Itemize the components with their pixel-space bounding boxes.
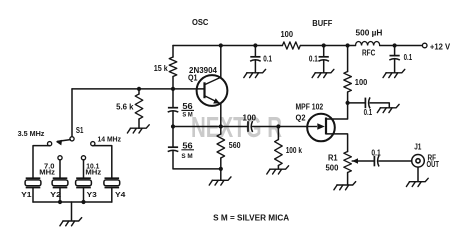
svg-text:5.6 k: 5.6 k [116,103,134,112]
contact 14 MHz [91,142,95,146]
wire 560 top lead [220,127,222,135]
label 0.1 [371,149,381,158]
contact 7.0 MHz [58,156,62,160]
svg-text:MPF 102: MPF 102 [296,103,324,112]
wire gnd stub [220,169,222,180]
wire 560 bottom lead [220,158,222,169]
svg-text:500: 500 [326,164,339,173]
resistor 5.6k [135,94,143,119]
wire Q2 source [326,134,348,152]
svg-text:100 k: 100 k [286,146,303,155]
ground bypass3 [383,69,405,77]
contact 3.5 MHz [48,142,52,146]
svg-text:0.1: 0.1 [364,108,373,117]
svg-text:MHz: MHz [39,168,55,177]
label 100 [355,78,368,87]
label RF [428,154,437,163]
wire bypass cap3 bottom lead [394,60,396,73]
svg-text:100: 100 [355,78,368,87]
ground R1 [334,182,356,190]
contact 10.1 MHz [81,156,85,160]
wiper arrow R1 [352,158,358,164]
svg-text:BUFF: BUFF [312,19,332,28]
label 500 [326,164,339,173]
label Q1 [188,73,198,82]
node drain junction [346,101,350,105]
label 0.1 [364,108,373,117]
svg-text:RFC: RFC [362,48,375,57]
resistor 15k [169,57,177,77]
wire bypass cap1 bottom lead [254,61,256,73]
node drain feed at rail [346,43,350,47]
svg-text:500 µH: 500 µH [356,29,383,38]
wire Y2 bottom lead [59,188,61,202]
label OUT [427,160,440,169]
resistor 100 buffer feed [282,42,300,49]
terminal +12V [422,43,427,48]
capacitor 100pF coupling [248,121,253,132]
svg-text:Y3: Y3 [87,190,97,199]
capacitor C 56pF silver mica #2 [168,147,179,151]
svg-text:OUT: OUT [427,160,440,169]
svg-text:Y1: Y1 [21,190,31,199]
label 5.6 k [116,103,134,112]
wire 7.0 contact to Y2 [59,160,61,179]
label 3.5 MHz [18,129,45,138]
crystal Y1 [21,178,41,199]
label 15 k [154,64,168,73]
label 0.1 [263,55,272,64]
ground crystal bus [60,218,82,226]
wire bypass cap2 bottom lead [323,61,325,73]
wire +12V rail right segment [380,45,423,47]
node emitter feedback junction [171,124,175,128]
wire base line from S1 [72,88,204,90]
wire bypass cap1 top lead [254,46,256,57]
node Q1 collector at rail [219,43,223,47]
wire coupling cap to gate [253,126,308,128]
node Y2 bus junction [58,200,62,204]
wire S1 wiper arm [58,140,71,142]
node BUFF section label [312,19,332,28]
label 560 [229,141,241,150]
label 500 uH [356,29,383,38]
ground 100k [267,166,289,174]
wire bypass cap2 top lead [323,46,325,57]
svg-text:0.1: 0.1 [371,149,381,158]
label 100 [281,30,294,39]
svg-text:56: 56 [182,102,193,111]
node emitter/coupling junction [219,124,223,128]
svg-text:Q1: Q1 [188,73,198,82]
node bypass C3 at rail [393,43,397,47]
svg-text:S M: S M [181,153,193,160]
wire 56 cap2 bottom lead [173,151,221,169]
svg-text:100: 100 [243,114,257,123]
wire 15k to base node [172,77,174,108]
wire 5.6k top lead [138,89,140,94]
wire wiper to cap [352,160,374,162]
wire Y3 bottom lead [83,188,85,202]
crystal Y3 [76,178,97,199]
ground oscillator emitter network [209,177,231,185]
wire between 56 caps upper [172,111,174,126]
svg-text:15 k: 15 k [154,64,168,73]
node bypass C2 at rail [322,43,326,47]
svg-text:0.1: 0.1 [404,53,413,62]
capacitor 0.1 drain bypass [365,97,370,108]
label RFC [362,48,375,57]
wire drain R top lead [347,46,349,72]
wire crystal ground bus [33,201,112,203]
svg-text:S M: S M [182,112,193,119]
label R1 [328,154,338,163]
wire J1 gnd stub [417,167,419,181]
svg-text:J1: J1 [414,143,422,152]
svg-text:OSC: OSC [192,18,209,27]
svg-text:0.1: 0.1 [263,55,272,64]
ground drain bypass [377,104,399,112]
ground 5.6k [127,125,149,133]
watermark [191,112,282,144]
wire S1 pole to base line [71,89,73,137]
resistor 100 drain [344,72,352,93]
ground bypass2 [312,69,334,77]
label 2N3904 [189,66,218,75]
svg-text:100: 100 [281,30,294,39]
wire 3.5 contact to Y1 [33,146,50,179]
wire bus gnd stub [71,202,73,221]
label 14 MHz [98,135,122,144]
svg-text:S1: S1 [76,126,84,135]
connector J1 [412,155,425,168]
label 100 [243,114,257,123]
wire to 56 cap2 [172,127,174,148]
transistor Q2 MPF102 JFET [307,114,335,142]
svg-text:MHz: MHz [85,168,101,177]
arrow S1 wiper [56,140,62,146]
wire 100k top lead [277,127,279,140]
wire 10.1 contact to Y3 [83,160,85,179]
crystal Y2 [50,178,68,199]
svg-text:Q2: Q2 [296,113,307,122]
capacitor 0.1 bypass #1 [250,57,261,61]
gate arrow Q2 [317,123,325,129]
wire Q2 drain [326,103,348,119]
svg-text:3.5 MHz: 3.5 MHz [18,129,45,138]
label 56 SM [181,141,194,159]
svg-text:R1: R1 [328,154,338,163]
node Y3 bus junction [81,200,85,204]
note silver mica [213,213,289,222]
wire 5.6k bottom lead [138,119,140,128]
node OSC section label [192,18,209,27]
svg-text:0.1: 0.1 [309,55,318,64]
wire drain bypass lead [348,102,366,104]
wire 100k bottom lead [277,166,279,169]
potentiometer R1 500 body [344,152,352,173]
svg-text:+12 V: +12 V [430,41,451,51]
wire Q1 emitter [220,104,222,127]
wire pot bottom lead [347,173,349,185]
svg-text:S M = SILVER MICA: S M = SILVER MICA [213,213,289,222]
wire cap to J1 [379,160,412,162]
resistor 100k [275,140,283,166]
capacitor 0.1 bypass #2 [318,57,329,61]
label 0.1 [404,53,413,62]
label MPF 102 [296,103,324,112]
wire +12V rail middle segment [300,45,355,47]
transistor Q1 2N3904 [197,75,228,106]
resistor 560 [217,134,225,158]
node 560 ground junction [219,167,223,171]
wire feedback/coupling line [173,126,248,128]
wire bypass cap3 top lead [394,46,396,56]
label J1 [414,143,422,152]
ground J1 [406,178,428,186]
label S1 [76,126,84,135]
label +12 V [430,41,451,51]
emitter arrow Q1 [213,98,220,103]
svg-text:NEXTG R: NEXTG R [191,112,282,144]
node 5.6k tap [137,87,141,91]
svg-text:14 MHz: 14 MHz [98,135,122,144]
node base junction [171,87,175,91]
label 7.0 MHz [39,162,55,177]
label 10.1 MHz [85,162,101,177]
crystal Y4 [104,178,127,199]
wire rail corner to 15k [172,46,174,58]
label 100 k [286,146,303,155]
label 56 SM [181,102,194,119]
wire 14 contact to Y4 [93,146,112,179]
inductor RFC 500uH [356,41,380,45]
node bypass C at rail [253,43,257,47]
ground bypass1 [244,69,266,77]
svg-text:Y4: Y4 [115,190,126,199]
wire +12V rail left segment [173,45,282,47]
label Q2 [296,113,307,122]
node gate junction [276,124,280,128]
capacitor 0.1 bypass #3 [389,56,400,60]
capacitor 0.1 output [374,156,379,167]
svg-text:560: 560 [229,141,241,150]
switch S1 pole [70,137,74,141]
svg-text:56: 56 [182,141,193,150]
label 0.1 [309,55,318,64]
wire drain bypass to gnd [370,103,389,108]
wire drain R bottom lead [347,92,349,103]
wire Y1 bottom lead [32,188,34,202]
wire Q1 collector [220,46,222,78]
capacitor C 56pF silver mica #1 [168,108,179,112]
wire Y4 bottom lead [111,188,113,202]
